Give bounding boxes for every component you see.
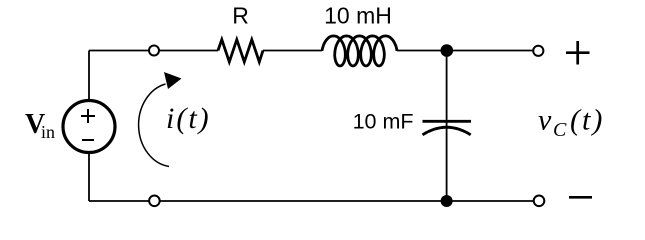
svg-text:10 mH: 10 mH bbox=[324, 3, 392, 29]
wire between resistor and inductor bbox=[263, 50, 322, 52]
terminal (open circle) bottom-left bbox=[149, 196, 160, 207]
terminal (open circle) bottom-right bbox=[534, 196, 545, 207]
wire top-left vertical (Vin to top rail) bbox=[88, 51, 90, 102]
node junction dot bottom bbox=[441, 195, 453, 207]
svg-text:(t): (t) bbox=[570, 104, 604, 137]
current arrowhead bbox=[164, 72, 182, 89]
output plus sign bbox=[566, 41, 590, 65]
node junction dot top (capacitor tap) bbox=[441, 44, 454, 57]
svg-text:R: R bbox=[232, 3, 249, 29]
inductor L1 coil (10 mH) bbox=[322, 36, 397, 66]
source plus mark bbox=[81, 109, 95, 123]
capacitor branch wire vertical bbox=[446, 51, 448, 202]
svg-text:v: v bbox=[538, 104, 552, 137]
source minus mark bbox=[82, 139, 94, 141]
wire inductor to output terminal (top rail right) bbox=[397, 50, 534, 52]
label vC(t) bbox=[538, 104, 604, 142]
voltage source U Vin circle bbox=[63, 101, 115, 153]
terminal (open circle) top-left bbox=[149, 46, 159, 56]
wire source bottom vertical bbox=[88, 153, 90, 202]
wire top rail left segment bbox=[89, 50, 218, 52]
svg-text:C: C bbox=[553, 119, 567, 141]
capacitor C1 top plate bbox=[423, 120, 472, 123]
svg-text:10 mF: 10 mF bbox=[353, 110, 414, 134]
output minus sign bbox=[569, 196, 592, 199]
svg-text:i(t): i(t) bbox=[166, 102, 211, 135]
svg-text:in: in bbox=[41, 122, 55, 142]
resistor R1 zigzag bbox=[218, 40, 263, 62]
capacitor C1 curved plate bbox=[423, 127, 471, 135]
wire bottom rail bbox=[89, 200, 534, 202]
terminal (open circle) top-right bbox=[533, 46, 543, 56]
current arrow arc i(t) bbox=[139, 84, 169, 167]
